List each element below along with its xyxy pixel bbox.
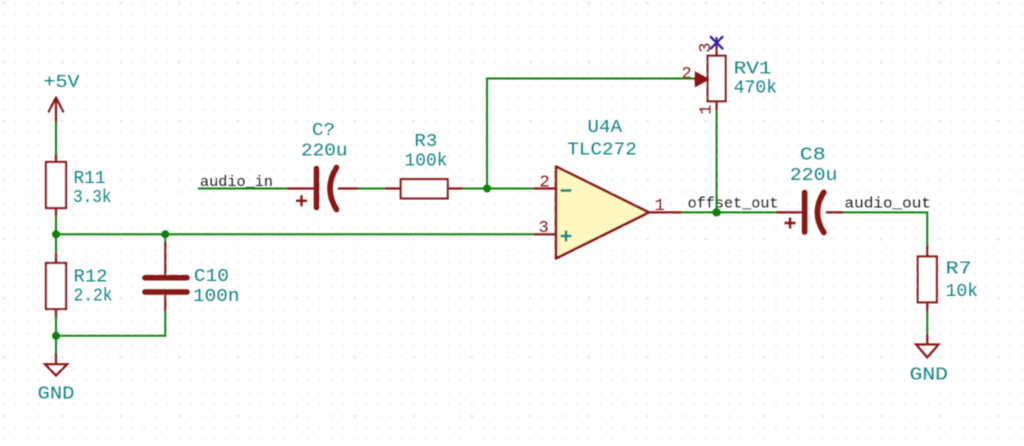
node A junction <box>52 230 60 238</box>
op-amp U4A pin 2 stub <box>534 187 557 189</box>
resistor R12 <box>46 253 66 318</box>
svg-text:R11: R11 <box>74 168 106 189</box>
wire RV1 wiper down to node D <box>716 110 718 213</box>
svg-text:+5V: +5V <box>44 72 80 93</box>
svg-text:R3: R3 <box>414 131 437 152</box>
wire feedback node C up and right to RV1 wiper <box>487 79 694 189</box>
node D junction <box>712 208 720 216</box>
svg-text:GND: GND <box>910 364 949 385</box>
power symbol +5V <box>49 98 63 124</box>
resistor R11 <box>46 154 66 217</box>
svg-text:GND: GND <box>38 384 75 405</box>
svg-text:1: 1 <box>697 104 716 114</box>
no-connect X on RV1 pin 3 <box>710 36 723 49</box>
op-amp U4A <box>556 167 649 259</box>
svg-text:10k: 10k <box>946 281 979 302</box>
svg-text:1: 1 <box>655 197 665 216</box>
svg-text:220u: 220u <box>301 141 348 162</box>
svg-text:C?: C? <box>312 120 335 141</box>
capacitor C10 <box>145 242 187 311</box>
wire node C to op-amp pin 2 <box>487 188 534 190</box>
resistor R7 <box>918 246 937 314</box>
svg-text:C10: C10 <box>194 266 229 287</box>
wire +5V to R11 <box>55 122 57 155</box>
svg-text:2: 2 <box>540 173 550 192</box>
svg-text:audio_out: audio_out <box>845 195 932 212</box>
wire C? to R3 <box>358 188 386 190</box>
wire C8 to R7 <box>843 212 927 246</box>
wire node B to GND <box>55 336 57 355</box>
svg-text:2.2k: 2.2k <box>74 286 113 307</box>
ground right <box>916 334 939 357</box>
svg-text:C8: C8 <box>800 144 826 165</box>
svg-text:offset_out: offset_out <box>688 195 779 212</box>
svg-text:3: 3 <box>539 219 549 238</box>
svg-text:R7: R7 <box>946 259 972 280</box>
svg-text:100n: 100n <box>193 286 240 307</box>
capacitor C8 (polarized) <box>776 192 844 232</box>
ground left <box>45 354 67 376</box>
wire node A to op-amp pin 3 <box>56 233 534 235</box>
node B junction <box>52 332 60 340</box>
svg-text:R12: R12 <box>74 267 108 288</box>
wire node B to C10 bottom <box>56 310 165 336</box>
wire R12 to node B <box>55 317 57 336</box>
svg-text:TLC272: TLC272 <box>567 140 637 161</box>
resistor R3 <box>385 179 464 198</box>
svg-text:2: 2 <box>682 65 692 84</box>
svg-text:220u: 220u <box>790 165 838 186</box>
wire R7 to GND <box>926 312 928 335</box>
svg-text:RV1: RV1 <box>734 59 772 80</box>
wire node A to R12 <box>55 234 57 254</box>
op-amp U4A pin 3 stub <box>534 233 557 235</box>
node C junction <box>483 185 491 193</box>
potentiometer RV1 <box>694 37 726 111</box>
wire audio_in <box>198 188 288 190</box>
op-amp pin 1 output stub <box>649 211 683 213</box>
svg-text:470k: 470k <box>734 78 778 99</box>
wire output to node D and C8 <box>682 211 778 213</box>
svg-text:100k: 100k <box>405 151 448 172</box>
svg-text:3.3k: 3.3k <box>73 187 112 208</box>
svg-text:U4A: U4A <box>588 117 623 138</box>
wire R3 to node C <box>463 188 488 190</box>
junction at C10 branch <box>161 230 169 238</box>
capacitor C? (polarized) <box>287 168 359 210</box>
wire C10 top branch <box>164 234 166 243</box>
wire R11 to node A <box>55 216 57 234</box>
